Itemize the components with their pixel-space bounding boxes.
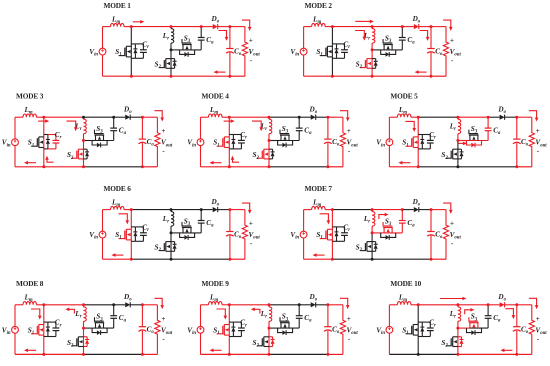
node Lr top (mode 1) xyxy=(170,25,173,28)
svg-text:MODE 7: MODE 7 xyxy=(305,184,333,193)
wire bottom rail Co to Vout (mode 3) xyxy=(142,166,157,168)
node Lr-S2-S3 middle (mode 7) xyxy=(371,231,374,234)
node Lr-S2-S3 middle (mode 9) xyxy=(268,327,271,330)
capacitor Cr (mode 8) xyxy=(48,322,59,336)
current arrow (mode 4) xyxy=(224,120,232,122)
wire top rail Ca node to diode Do (mode 6) xyxy=(201,209,213,211)
inductor Lr (mode 6) xyxy=(171,210,174,233)
capacitor Ca (mode 7) xyxy=(399,210,406,233)
wire bottom rail S1 to S2 (mode 2) xyxy=(332,75,372,77)
current arrow (mode 7) xyxy=(379,215,386,220)
wire top rail to Lm (mode 5) xyxy=(389,116,397,118)
wire bottom rail Co to Vout (mode 10) xyxy=(517,353,532,355)
node Lr-S2-S3 middle (mode 2) xyxy=(371,48,374,51)
wire top rail Lr node to Ca node (mode 10) xyxy=(458,304,488,306)
inductor Lm (mode 2) xyxy=(312,23,326,26)
node Ca top (mode 10) xyxy=(487,303,490,306)
wire top rail Lm to S1 node (mode 8) xyxy=(37,304,44,306)
wire S1 drain-source vertical (mode 7) xyxy=(331,210,333,260)
node Lr top (mode 5) xyxy=(456,116,459,119)
capacitor Ca (mode 2) xyxy=(399,27,406,50)
current arrow (mode 2) xyxy=(443,20,451,28)
wire S2 drain-source vertical (mode 1) xyxy=(170,50,172,76)
wire bottom rail Co to Vout (mode 7) xyxy=(431,258,446,260)
current arrow (mode 7) xyxy=(316,254,325,256)
capacitor Co (mode 5) xyxy=(513,117,521,167)
capacitor Cr (mode 9) xyxy=(233,322,244,336)
circuit MODE 9 xyxy=(187,279,358,356)
current arrow (mode 4) xyxy=(233,159,240,163)
svg-text:MODE 4: MODE 4 xyxy=(202,92,230,101)
wire left rail (mode 1) xyxy=(102,27,104,77)
current arrow (mode 2) xyxy=(418,71,427,73)
current arrow (mode 8) xyxy=(31,309,40,317)
node S2 bottom (mode 10) xyxy=(456,353,459,356)
wire top rail Co node to Vout corner (mode 2) xyxy=(431,26,446,28)
transistor S2 channel (mode 1) xyxy=(159,59,171,69)
current arrow (mode 5) xyxy=(405,121,414,129)
wire S2 drain-source vertical (mode 9) xyxy=(268,328,270,354)
body diode of S1 (mode 7) xyxy=(332,227,338,241)
capacitor Cr (mode 3) xyxy=(48,135,59,149)
body diode of S1 (mode 2) xyxy=(332,44,338,58)
node Ca top (mode 5) xyxy=(487,116,490,119)
transistor S3 channel (mode 2) xyxy=(383,39,393,50)
node S1 top (mode 10) xyxy=(417,303,420,306)
wire top rail Co node to Vout corner (mode 5) xyxy=(517,116,532,118)
node Ca top (mode 1) xyxy=(200,25,203,28)
body diode of S3 (mode 3) xyxy=(92,141,107,148)
inductor Lr (mode 5) xyxy=(458,117,461,140)
wire S3 to Ca (mode 2) xyxy=(384,49,403,51)
node S1 top (mode 4) xyxy=(228,116,231,119)
current arrow (mode 1) xyxy=(219,31,227,38)
diode Do (mode 7) xyxy=(414,207,419,212)
transistor S1 channel (mode 9) xyxy=(217,325,230,336)
wire top rail Do to Co node (mode 10) xyxy=(505,304,517,306)
svg-text:+: + xyxy=(249,37,253,45)
inductor Lr (mode 9) xyxy=(269,305,272,328)
body diode of S1 (mode 1) xyxy=(131,44,137,58)
node S1 top (mode 2) xyxy=(331,25,334,28)
wire S3 to Ca (mode 3) xyxy=(95,140,114,142)
wire top rail Do to Co node (mode 5) xyxy=(505,116,517,118)
transistor S3 channel (mode 9) xyxy=(280,317,290,328)
wire top rail Ca node to diode Do (mode 10) xyxy=(488,304,500,306)
node S2 bottom (mode 6) xyxy=(170,258,173,261)
current arrow (mode 3) xyxy=(67,121,76,128)
capacitor Cr (mode 2) xyxy=(337,44,348,58)
node Co bottom (mode 4) xyxy=(326,165,329,168)
node S1 top (mode 1) xyxy=(130,25,133,28)
capacitor Co (mode 8) xyxy=(139,305,147,355)
transistor S2 channel (mode 5) xyxy=(446,149,458,159)
node Lr top (mode 6) xyxy=(170,208,173,211)
node S2 bottom (mode 3) xyxy=(82,165,85,168)
body diode of S1 (mode 6) xyxy=(131,227,137,241)
node Lr top (mode 3) xyxy=(82,116,85,119)
svg-text:MODE 1: MODE 1 xyxy=(104,1,132,10)
current arrow (mode 4) xyxy=(340,111,348,119)
current arrow (mode 6) xyxy=(119,214,128,222)
load resistor Vout (mode 7) xyxy=(443,210,448,260)
node Co bottom (mode 8) xyxy=(141,353,144,356)
body diode of S2 (mode 10) xyxy=(458,337,464,347)
svg-text:+: + xyxy=(536,315,540,323)
wire S2 drain-source vertical (mode 7) xyxy=(371,233,373,259)
node S2 bottom (mode 8) xyxy=(82,353,85,356)
wire middle node to S3 (mode 8) xyxy=(84,327,96,329)
body diode of S3 (mode 1) xyxy=(180,50,195,57)
current arrow (mode 10) xyxy=(505,309,513,316)
load resistor Vout (mode 2) xyxy=(443,27,448,77)
body diode of S3 (mode 7) xyxy=(381,233,396,240)
load resistor Vout (mode 5) xyxy=(529,117,534,167)
wire S3 to Ca (mode 1) xyxy=(183,49,202,51)
diode Do (mode 8) xyxy=(125,302,130,307)
wire bottom rail left (mode 10) xyxy=(389,353,418,355)
svg-text:+: + xyxy=(161,127,165,135)
wire top rail S1 node to Lr node (mode 8) xyxy=(44,304,84,306)
current arrow (mode 1) xyxy=(242,20,250,28)
node Lr top (mode 4) xyxy=(268,116,271,119)
wire bottom rail S1 to S2 (mode 9) xyxy=(229,353,269,355)
transistor S3 channel (mode 3) xyxy=(94,130,104,141)
wire bottom rail left (mode 5) xyxy=(389,166,418,168)
current arrow (mode 3) xyxy=(27,162,36,164)
wire bottom rail S1 to S2 (mode 6) xyxy=(131,258,171,260)
wire top rail Lr node to Ca node (mode 5) xyxy=(458,116,488,118)
node Co top (mode 8) xyxy=(141,303,144,306)
body diode of S1 (mode 4) xyxy=(229,135,235,149)
current arrow (mode 9) xyxy=(254,309,260,313)
wire bottom rail S2 to Co (mode 10) xyxy=(458,353,517,355)
body diode of S2 (mode 6) xyxy=(171,242,177,252)
capacitor Cr (mode 1) xyxy=(135,44,146,58)
transistor S2 channel (mode 2) xyxy=(360,59,372,69)
wire bottom rail Co to Vout (mode 1) xyxy=(230,75,245,77)
diode Do (mode 4) xyxy=(311,115,316,120)
wire top rail Lr node to Ca node (mode 4) xyxy=(269,116,299,118)
capacitor Co (mode 4) xyxy=(324,117,332,167)
node Co top (mode 6) xyxy=(228,208,231,211)
svg-text:+: + xyxy=(347,315,351,323)
node S1 bottom (mode 4) xyxy=(228,165,231,168)
transistor S3 channel (mode 5) xyxy=(468,130,478,141)
voltage source Vin (mode 6) xyxy=(99,231,106,238)
wire top rail Co node to Vout corner (mode 8) xyxy=(142,304,157,306)
wire top rail Ca node to diode Do (mode 8) xyxy=(114,304,126,306)
current arrow (mode 3) xyxy=(38,120,46,122)
transistor S3 channel (mode 4) xyxy=(280,130,290,141)
body diode of S1 (mode 9) xyxy=(229,322,235,336)
wire middle node to S3 (mode 4) xyxy=(269,140,281,142)
inductor Lr (mode 8) xyxy=(84,305,87,328)
diode Do (mode 10) xyxy=(500,302,505,307)
wire bottom rail S2 to Co (mode 5) xyxy=(458,166,517,168)
capacitor Cr (mode 7) xyxy=(337,227,348,241)
voltage source Vin (mode 1) xyxy=(99,48,106,55)
current arrow (mode 4) xyxy=(252,121,261,128)
wire top rail S1 node to Lr node (mode 10) xyxy=(418,304,458,306)
wire S1 drain-source vertical (mode 9) xyxy=(228,305,230,355)
current arrow (mode 6) xyxy=(115,254,124,256)
capacitor Co (mode 2) xyxy=(427,27,435,77)
capacitor Co (mode 3) xyxy=(139,117,147,167)
wire top rail Co node to Vout corner (mode 1) xyxy=(230,26,245,28)
node Lr-S2-S3 middle (mode 6) xyxy=(170,231,173,234)
inductor Lr (mode 1) xyxy=(171,27,174,50)
transistor S3 channel (mode 1) xyxy=(182,39,192,50)
current arrow (mode 5) xyxy=(458,142,464,144)
wire top rail Lm to S1 node (mode 2) xyxy=(325,26,332,28)
current arrow (mode 8) xyxy=(155,298,163,306)
current arrow (mode 5) xyxy=(401,162,410,164)
wire bottom rail S2 to Co (mode 9) xyxy=(269,353,328,355)
svg-text:MODE 6: MODE 6 xyxy=(104,184,132,193)
node Lr-S2-S3 middle (mode 3) xyxy=(82,139,85,142)
node Co bottom (mode 9) xyxy=(326,353,329,356)
inductor Lm (mode 4) xyxy=(209,114,223,117)
svg-text:MODE 5: MODE 5 xyxy=(390,92,418,101)
capacitor Ca (mode 9) xyxy=(296,305,303,328)
body diode of S3 (mode 5) xyxy=(467,141,482,148)
node Co bottom (mode 6) xyxy=(228,258,231,261)
wire left rail (mode 5) xyxy=(388,117,390,167)
svg-text:+: + xyxy=(161,315,165,323)
node S2 bottom (mode 4) xyxy=(268,165,271,168)
node S2 bottom (mode 7) xyxy=(371,258,374,261)
capacitor Co (mode 9) xyxy=(324,305,332,355)
svg-text:+: + xyxy=(249,220,253,228)
svg-text:MODE 8: MODE 8 xyxy=(16,279,44,288)
load resistor Vout (mode 10) xyxy=(529,305,534,355)
wire bottom rail left (mode 7) xyxy=(304,258,333,260)
body diode of S2 (mode 7) xyxy=(372,242,378,252)
wire top rail Do to Co node (mode 6) xyxy=(218,209,230,211)
wire bottom rail Co to Vout (mode 4) xyxy=(328,166,343,168)
node Lr top (mode 7) xyxy=(371,208,374,211)
svg-text:MODE 2: MODE 2 xyxy=(305,1,333,10)
body diode of S1 (mode 5) xyxy=(418,135,424,149)
body diode of S1 (mode 3) xyxy=(44,135,50,149)
wire top rail to Lm (mode 9) xyxy=(201,304,209,306)
wire S1 drain-source vertical (mode 2) xyxy=(331,27,333,77)
node Co bottom (mode 5) xyxy=(515,165,518,168)
capacitor Ca (mode 5) xyxy=(485,117,492,140)
node S1 bottom (mode 1) xyxy=(130,75,133,78)
node Co top (mode 3) xyxy=(141,116,144,119)
wire top rail to Lm (mode 10) xyxy=(389,304,397,306)
load resistor Vout (mode 1) xyxy=(242,27,247,77)
body diode of S3 (mode 2) xyxy=(381,50,396,57)
circuit MODE 1 xyxy=(89,1,260,78)
current arrow (mode 9) xyxy=(213,349,222,351)
svg-text:MODE 9: MODE 9 xyxy=(202,279,230,288)
wire top rail S1 node to Lr node (mode 9) xyxy=(229,304,269,306)
voltage source Vin (mode 8) xyxy=(12,326,19,333)
wire top rail S1 node to Lr node (mode 3) xyxy=(44,116,84,118)
inductor Lr (mode 7) xyxy=(372,210,375,233)
wire top rail Co node to Vout corner (mode 9) xyxy=(328,304,343,306)
wire top rail to Lm (mode 1) xyxy=(103,26,111,28)
body diode of S3 (mode 4) xyxy=(278,141,293,148)
wire S3 to Ca (mode 8) xyxy=(95,327,114,329)
voltage source Vin (mode 5) xyxy=(386,139,393,146)
node S1 bottom (mode 7) xyxy=(331,258,334,261)
capacitor Ca (mode 4) xyxy=(296,117,303,140)
wire top rail Do to Co node (mode 8) xyxy=(130,304,142,306)
voltage source Vin (mode 7) xyxy=(300,231,307,238)
wire top rail Lr node to Ca node (mode 3) xyxy=(84,116,114,118)
wire top rail Ca node to diode Do (mode 7) xyxy=(402,209,414,211)
voltage source Vin (mode 3) xyxy=(12,139,19,146)
load resistor Vout (mode 9) xyxy=(340,305,345,355)
wire top rail to Lm (mode 2) xyxy=(304,26,312,28)
wire top rail Lr node to Ca node (mode 1) xyxy=(171,26,201,28)
node Co top (mode 7) xyxy=(430,208,433,211)
transistor S1 channel (mode 5) xyxy=(406,137,419,148)
transistor S2 channel (mode 7) xyxy=(360,242,372,252)
wire bottom rail left (mode 9) xyxy=(201,353,230,355)
capacitor Cr (mode 5) xyxy=(422,135,433,149)
wire bottom rail Co to Vout (mode 9) xyxy=(328,353,343,355)
body diode of S3 (mode 8) xyxy=(92,328,107,335)
wire middle node to S3 (mode 10) xyxy=(458,327,470,329)
wire top rail S1 node to Lr node (mode 5) xyxy=(418,116,458,118)
node Co top (mode 1) xyxy=(228,25,231,28)
current arrow (mode 3) xyxy=(47,159,54,163)
wire bottom rail S2 to Co (mode 7) xyxy=(372,258,431,260)
wire bottom rail left (mode 1) xyxy=(103,75,132,77)
voltage source Vin (mode 2) xyxy=(300,48,307,55)
wire S1 drain-source vertical (mode 5) xyxy=(417,117,419,167)
node S1 bottom (mode 3) xyxy=(42,165,45,168)
node Lr-S2-S3 middle (mode 10) xyxy=(456,327,459,330)
transistor S2 channel (mode 9) xyxy=(257,337,269,347)
wire top rail Co node to Vout corner (mode 4) xyxy=(328,116,343,118)
body diode of S1 (mode 8) xyxy=(44,322,50,336)
voltage source Vin (mode 10) xyxy=(386,326,393,333)
wire S3 to Ca (mode 6) xyxy=(183,232,202,234)
wire S2 drain-source vertical (mode 8) xyxy=(83,328,85,354)
wire bottom rail left (mode 3) xyxy=(15,166,44,168)
inductor Lr (mode 3) xyxy=(84,117,87,140)
body diode of S1 (mode 10) xyxy=(418,322,424,336)
transistor S3 channel (mode 6) xyxy=(182,222,192,233)
wire middle node to S3 (mode 1) xyxy=(171,49,183,51)
capacitor Ca (mode 6) xyxy=(198,210,205,233)
current arrow (mode 7) xyxy=(443,203,451,211)
wire middle node to S3 (mode 3) xyxy=(84,140,96,142)
inductor Lr (mode 4) xyxy=(269,117,272,140)
wire top rail Ca node to diode Do (mode 4) xyxy=(299,116,311,118)
circuit MODE 10 xyxy=(376,279,547,356)
node Co top (mode 5) xyxy=(515,116,518,119)
current arrow (mode 1) xyxy=(217,71,226,73)
wire top rail Co node to Vout corner (mode 10) xyxy=(517,304,532,306)
node Ca top (mode 2) xyxy=(401,25,404,28)
wire S1 drain-source vertical (mode 3) xyxy=(43,117,45,167)
wire top rail Ca node to diode Do (mode 5) xyxy=(488,116,500,118)
node Lr top (mode 9) xyxy=(268,303,271,306)
transistor S1 channel (mode 8) xyxy=(31,325,44,336)
node Lr-S2-S3 middle (mode 4) xyxy=(268,139,271,142)
svg-text:+: + xyxy=(347,127,351,135)
body diode of S3 (mode 9) xyxy=(278,328,293,335)
transistor S1 channel (mode 7) xyxy=(320,229,333,240)
node Lr top (mode 2) xyxy=(371,25,374,28)
wire top rail Lm to S1 node (mode 6) xyxy=(124,209,131,211)
wire top rail Lm to S1 node (mode 5) xyxy=(411,116,418,118)
current arrow (mode 10) xyxy=(440,298,463,300)
node S1 top (mode 6) xyxy=(130,208,133,211)
transistor S3 channel (mode 7) xyxy=(383,222,393,233)
wire bottom rail S2 to Co (mode 8) xyxy=(84,353,143,355)
load resistor Vout (mode 8) xyxy=(155,305,160,355)
svg-text:MODE 3: MODE 3 xyxy=(16,92,44,101)
current arrow (mode 6) xyxy=(242,203,250,211)
node Lr top (mode 8) xyxy=(82,303,85,306)
wire left rail (mode 9) xyxy=(200,305,202,355)
transistor S1 channel (mode 2) xyxy=(320,46,333,57)
node Lr top (mode 10) xyxy=(456,303,459,306)
node S2 bottom (mode 1) xyxy=(170,75,173,78)
wire top rail Ca node to diode Do (mode 2) xyxy=(402,26,414,28)
wire top rail Lr node to Ca node (mode 6) xyxy=(171,209,201,211)
wire top rail Lm to S1 node (mode 1) xyxy=(124,26,131,28)
current arrow (mode 8) xyxy=(27,349,36,351)
transistor S2 channel (mode 3) xyxy=(72,149,84,159)
wire top rail Do to Co node (mode 2) xyxy=(419,26,431,28)
body diode of S2 (mode 2) xyxy=(372,59,378,69)
diode Do (mode 5) xyxy=(500,115,505,120)
wire S1 drain-source vertical (mode 1) xyxy=(130,27,132,77)
wire S1 drain-source vertical (mode 6) xyxy=(130,210,132,260)
diode Do (mode 2) xyxy=(414,24,419,29)
inductor Lm (mode 3) xyxy=(23,114,37,117)
svg-text:+: + xyxy=(536,127,540,135)
wire top rail to Lm (mode 7) xyxy=(304,209,312,211)
inductor Lr (mode 2) xyxy=(372,27,375,50)
body diode of S3 (mode 10) xyxy=(467,328,482,335)
wire S2 drain-source vertical (mode 6) xyxy=(170,233,172,259)
node Lr-S2-S3 middle (mode 5) xyxy=(456,139,459,142)
node S2 bottom (mode 9) xyxy=(268,353,271,356)
circuit MODE 5 xyxy=(376,92,547,169)
node S1 top (mode 3) xyxy=(42,116,45,119)
node Co bottom (mode 2) xyxy=(430,75,433,78)
current arrow (mode 7) xyxy=(320,214,329,222)
current arrow (mode 8) xyxy=(68,309,74,313)
capacitor Ca (mode 8) xyxy=(110,305,117,328)
node S1 bottom (mode 10) xyxy=(417,353,420,356)
wire top rail Ca node to diode Do (mode 9) xyxy=(299,304,311,306)
wire top rail Ca node to diode Do (mode 1) xyxy=(201,26,213,28)
wire left rail (mode 6) xyxy=(102,210,104,260)
body diode of S2 (mode 9) xyxy=(269,337,275,347)
current arrow (mode 2) xyxy=(355,20,371,22)
wire bottom rail left (mode 8) xyxy=(15,353,44,355)
voltage source Vin (mode 4) xyxy=(197,139,204,146)
wire bottom rail S1 to S2 (mode 1) xyxy=(131,75,171,77)
node S1 bottom (mode 2) xyxy=(331,75,334,78)
wire top rail S1 node to Lr node (mode 1) xyxy=(131,26,171,28)
node S1 bottom (mode 6) xyxy=(130,258,133,261)
wire S3 to Ca (mode 5) xyxy=(469,140,488,142)
node Co top (mode 4) xyxy=(326,116,329,119)
wire bottom rail S1 to S2 (mode 7) xyxy=(332,258,372,260)
